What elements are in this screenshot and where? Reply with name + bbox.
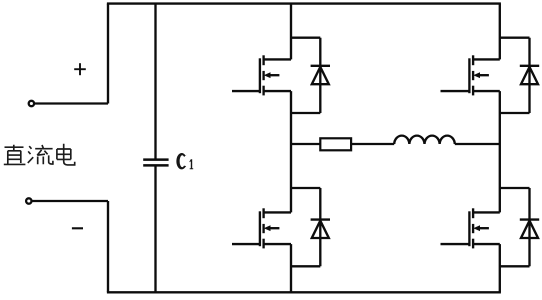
- wire - terminal to left riser: [32, 200, 108, 202]
- Q2 body arrow: [479, 74, 489, 76]
- wire node A to load (left mid-rail): [291, 143, 320, 145]
- wire inductor to node B (right mid-rail): [455, 143, 500, 145]
- inductor L (load): [394, 136, 455, 144]
- Q3 drain channel tick: [262, 208, 264, 218]
- transistor Q4 (bottom-right MOSFET): [441, 208, 500, 248]
- wire Q3 gate lead: [232, 243, 260, 245]
- wire Q1 drain stub: [264, 58, 291, 60]
- Q4 body arrow: [479, 227, 489, 229]
- terminal + (input node): [29, 101, 34, 106]
- Q4 drain channel tick: [472, 208, 474, 218]
- Q3 source channel tick: [262, 239, 264, 249]
- Q4 body channel tick: [472, 224, 474, 233]
- wire D4 cathode branch: [500, 187, 530, 189]
- wire right leg mid (Q2 source to Q4 drain): [499, 91, 501, 212]
- diode D2 (top-right freewheel): [520, 38, 539, 113]
- transistor Q2 (top-right MOSFET): [441, 55, 500, 95]
- label C1: [176, 153, 193, 169]
- wire D1 cathode branch: [291, 37, 320, 39]
- capacitor C1 top plate: [143, 158, 168, 161]
- terminal - (input node): [26, 198, 31, 203]
- diode D3 (bottom-left freewheel): [311, 188, 330, 266]
- Q1 gate bar: [259, 58, 261, 93]
- wire C1 bottom lead: [154, 167, 156, 293]
- transistor Q1 (top-left MOSFET): [232, 55, 291, 95]
- wire D2 cathode branch: [500, 37, 530, 39]
- Q4 gate bar: [468, 211, 470, 246]
- wire top rail (+ bus): [107, 2, 501, 4]
- diode D1 (top-left freewheel): [311, 38, 330, 113]
- Q3 gate bar: [259, 211, 261, 246]
- Q1 source channel tick: [262, 86, 264, 96]
- wire D3 cathode branch: [291, 187, 320, 189]
- Q1 body channel tick: [262, 71, 264, 80]
- wire Q4 source stub: [473, 243, 500, 245]
- wire left leg drain drop (top rail to Q1 drain): [290, 4, 292, 60]
- wire right leg bottom (Q4 source to bottom rail): [499, 244, 501, 292]
- Q3 body arrow: [269, 227, 279, 229]
- Q2 gate bar: [468, 58, 470, 93]
- wire D3 anode branch: [291, 265, 320, 267]
- wire Q1 source stub: [264, 90, 291, 92]
- transistor Q3 (bottom-left MOSFET): [232, 208, 291, 248]
- wire D4 anode branch: [500, 265, 530, 267]
- wire left riser top: [107, 4, 109, 104]
- wire Q1 gate lead: [232, 90, 260, 92]
- label + polarity: [74, 63, 86, 75]
- wire right leg drain drop (top rail to Q2 drain): [499, 4, 501, 60]
- wire left riser bottom: [107, 201, 109, 292]
- Q3 body channel tick: [262, 224, 264, 233]
- resistor R (load): [320, 138, 351, 150]
- Q2 drain channel tick: [472, 55, 474, 65]
- Q1 drain channel tick: [262, 55, 264, 65]
- wire C1 top lead: [154, 4, 156, 159]
- wire Q2 drain stub: [473, 58, 500, 60]
- label 直流电 (DC source): [4, 144, 75, 165]
- Q4 source channel tick: [472, 239, 474, 249]
- wire resistor to inductor: [351, 143, 394, 145]
- wire Q2 gate lead: [441, 90, 470, 92]
- label - polarity: [72, 227, 83, 229]
- wire Q4 drain stub: [473, 211, 500, 213]
- Q2 body channel tick: [472, 71, 474, 80]
- Q2 source channel tick: [472, 86, 474, 96]
- wire bottom rail (- bus): [107, 291, 501, 293]
- wire Q4 gate lead: [441, 243, 470, 245]
- wire left leg bottom (Q3 source to bottom rail): [290, 244, 292, 292]
- wire D2 anode branch: [500, 112, 530, 114]
- capacitor C1 bottom plate: [143, 164, 168, 167]
- wire left leg mid (Q1 source to Q3 drain): [290, 91, 292, 212]
- wire Q3 source stub: [264, 243, 291, 245]
- wire Q3 drain stub: [264, 211, 291, 213]
- wire D1 anode branch: [291, 112, 320, 114]
- diode D4 (bottom-right freewheel): [520, 188, 539, 266]
- capacitor C1: [143, 4, 168, 293]
- Q1 body arrow: [269, 74, 279, 76]
- wire + terminal to left riser: [35, 102, 108, 104]
- wire Q2 source stub: [473, 90, 500, 92]
